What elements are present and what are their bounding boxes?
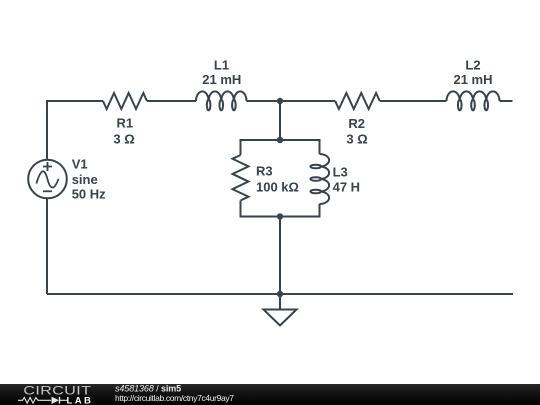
voltage source V1 (28, 160, 67, 199)
node junction dot parallel bottom (277, 213, 283, 219)
wire bottom rail (47, 293, 513, 295)
node junction dot ground (277, 291, 283, 297)
svg-text:L2: L2 (465, 58, 480, 73)
ground (264, 310, 297, 326)
svg-text:R1: R1 (116, 116, 133, 131)
node junction dot parallel top (277, 137, 283, 143)
logo resistor squiggle and diode (18, 397, 67, 404)
footer bar (0, 384, 540, 405)
svg-text:V1: V1 (72, 157, 88, 172)
svg-text:L1: L1 (214, 58, 229, 73)
wire right of L2 (500, 100, 513, 102)
svg-text:L3: L3 (333, 165, 348, 180)
inductor L3 (311, 154, 330, 204)
wire top-left from V1 to R1 (47, 101, 103, 160)
svg-text:3 Ω: 3 Ω (346, 131, 367, 146)
wire parallel top rail (241, 140, 320, 155)
inductor L1 (196, 91, 247, 110)
wire V1 bottom down (46, 198, 48, 294)
wire ground stub (279, 294, 281, 310)
wire parallel bottom rail (241, 201, 320, 217)
wire between R2 and L2 (380, 100, 447, 102)
svg-text:R2: R2 (348, 116, 365, 131)
node A junction dot (top) (277, 98, 283, 104)
svg-text:21 mH: 21 mH (453, 72, 492, 87)
wire parallel section down to bottom rail (279, 217, 281, 295)
inductor L2 (447, 91, 500, 110)
svg-text:sine: sine (72, 172, 98, 187)
resistor R2 (335, 93, 380, 109)
resistor R1 (103, 93, 147, 109)
svg-text:50 Hz: 50 Hz (72, 187, 106, 202)
svg-text:21 mH: 21 mH (202, 72, 241, 87)
svg-text:47 H: 47 H (333, 179, 360, 194)
wire node A down to parallel top rail (279, 101, 281, 140)
wire between R1 and L1 (147, 100, 196, 102)
wire node A to R2 (280, 100, 335, 102)
wire between L1 and node A (247, 100, 281, 102)
svg-text:R3: R3 (256, 164, 273, 179)
svg-text:100 kΩ: 100 kΩ (256, 180, 299, 195)
resistor R3 (233, 155, 249, 201)
svg-text:3 Ω: 3 Ω (113, 132, 134, 147)
